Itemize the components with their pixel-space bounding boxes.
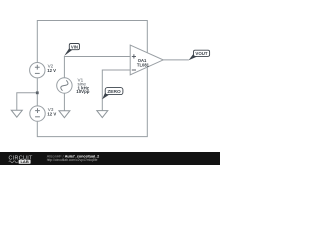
wire: op-amp - input left and down to ground (ZERO net)	[102, 70, 130, 111]
svg-text:VIN: VIN	[71, 44, 78, 49]
wire: junction down to V3 top	[36, 93, 38, 106]
label OA1 TL081	[137, 58, 150, 67]
svg-text:12 V: 12 V	[47, 68, 56, 73]
wire: top rail from V2 top to op-amp V+ stub	[37, 21, 147, 63]
footer logo CIRCUIT	[9, 156, 34, 162]
wire: V3 bottom, bottom rail, op-amp V- stub	[37, 67, 147, 137]
footer credit line 1	[47, 154, 99, 158]
wire: junction to left ground branch	[17, 93, 38, 110]
svg-text:TL081: TL081	[137, 63, 150, 68]
net flag ZERO	[102, 88, 123, 100]
voltage source V2	[30, 62, 45, 77]
wire: V1 top up and right to op-amp + input (VIN net)	[64, 57, 130, 78]
voltage source V1 (sine)	[57, 78, 72, 93]
label V2 value 12 V	[47, 64, 56, 74]
wire: V1 bottom stub to ground	[63, 93, 65, 110]
footer bar	[0, 152, 220, 165]
svg-text:LAB: LAB	[20, 159, 28, 164]
label V1 sine 1 kHz 10Vpp	[76, 77, 89, 94]
label V3 value 12 V	[47, 107, 56, 117]
footer logo LAB box	[19, 160, 31, 164]
op-amp + input marker	[132, 54, 136, 58]
op-amp OA1 triangle	[130, 45, 163, 75]
svg-text:ZERO: ZERO	[107, 89, 121, 95]
node junction dot	[36, 91, 39, 94]
wire: V2 bottom to junction	[36, 78, 38, 93]
footer logo squiggle	[9, 161, 18, 163]
wire: op-amp output to VOUT flag	[163, 59, 189, 61]
svg-text:10Vpp: 10Vpp	[76, 89, 89, 94]
svg-text:http://circuitlab.com/c2vp47mk: http://circuitlab.com/c2vp47mkq8fe	[47, 158, 98, 162]
footer credit line 2	[47, 158, 98, 162]
net flag VIN	[64, 44, 79, 56]
ground (left, below junction)	[11, 110, 22, 117]
ground (ZERO net)	[97, 111, 108, 118]
voltage source V3	[30, 106, 45, 121]
net flag VOUT	[189, 50, 210, 60]
svg-text:12 V: 12 V	[47, 112, 56, 117]
op-amp - input marker	[132, 69, 136, 71]
ground (below V1)	[59, 111, 70, 118]
svg-text:VOUT: VOUT	[195, 51, 208, 56]
